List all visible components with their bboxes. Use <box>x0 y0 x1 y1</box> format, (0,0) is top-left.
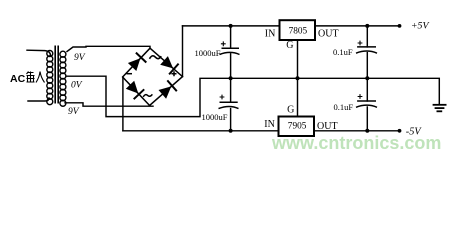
svg-text:1000uF: 1000uF <box>195 48 221 58</box>
svg-text:+5V: +5V <box>411 21 430 32</box>
wire AC input bottom lead <box>28 98 49 101</box>
svg-text:IN: IN <box>264 119 275 130</box>
diode D4 on bottom-right edge <box>159 80 177 98</box>
svg-text:G: G <box>287 104 294 115</box>
capacitor C3 0.1uF <box>356 41 377 54</box>
svg-text:7805: 7805 <box>289 27 308 37</box>
wire C1 C2 vertical branch <box>230 26 232 48</box>
wire bottom rail left segment to 7905 IN <box>123 130 278 132</box>
wire bridge minus vertex down to bottom rail <box>122 77 124 131</box>
wire secondary 9V top tap to bridge <box>67 46 150 51</box>
svg-text:AC: AC <box>10 73 26 85</box>
svg-text:G: G <box>286 40 293 51</box>
svg-text:OUT: OUT <box>317 121 338 132</box>
junction node top rail C3 <box>365 24 369 28</box>
diode D3 on left-bottom edge <box>126 81 144 99</box>
svg-text:www.cntronics.com: www.cntronics.com <box>271 133 441 153</box>
junction node mid rail G <box>296 76 300 80</box>
label AC tilde bottom <box>143 94 152 97</box>
capacitor C1 1000uF <box>220 41 240 54</box>
ground symbol <box>433 105 447 112</box>
terminal +5V <box>398 24 402 28</box>
bridge rectifier diamond <box>123 48 183 105</box>
junction node mid rail C1C2 <box>229 76 233 80</box>
svg-text:OUT: OUT <box>318 28 339 39</box>
svg-text:IN: IN <box>265 29 276 40</box>
diode D1 on left-top edge <box>128 53 146 71</box>
label plus node <box>172 71 177 76</box>
svg-text:9V: 9V <box>74 53 86 63</box>
capacitor C2 1000uF <box>219 95 239 109</box>
wire top rail 7805 OUT to +5V terminal <box>316 25 400 27</box>
svg-text:0.1uF: 0.1uF <box>334 102 354 112</box>
svg-text:1000uF: 1000uF <box>202 112 228 122</box>
wire regulator ground pins vertical <box>297 41 299 116</box>
junction node top rail C1 <box>229 24 233 28</box>
svg-text:7905: 7905 <box>288 121 307 131</box>
svg-text:0V: 0V <box>71 81 83 91</box>
transformer T1 secondary winding <box>60 51 66 106</box>
junction node bottom rail C2 <box>229 129 233 133</box>
capacitor C4 0.1uF <box>356 94 377 107</box>
wire top rail left segment to 7805 IN <box>183 25 280 27</box>
svg-text:0.1uF: 0.1uF <box>333 47 353 57</box>
junction node bottom rail C4 <box>365 129 369 133</box>
wire secondary 0V center tap to mid rail <box>66 76 439 116</box>
transformer T1 core <box>55 46 58 104</box>
regulator U2 7905 box <box>279 117 315 137</box>
wire C3 C4 vertical branch <box>366 26 368 47</box>
wire bottom rail 7905 OUT to -5V terminal <box>315 130 400 132</box>
terminal -5V <box>398 129 402 133</box>
label AC tilde top <box>150 56 162 59</box>
wire AC input top lead <box>27 50 51 55</box>
transformer T1 primary winding <box>47 51 53 105</box>
junction node mid rail C3C4 <box>365 76 369 80</box>
svg-text:9V: 9V <box>68 107 80 117</box>
wire bridge plus vertex up to top rail <box>182 26 184 77</box>
label minus node <box>127 73 133 75</box>
wire secondary 9V bottom tap to bridge bottom <box>65 103 153 106</box>
regulator U1 7805 box <box>280 20 316 40</box>
diode D2 on top-right edge <box>160 56 178 74</box>
